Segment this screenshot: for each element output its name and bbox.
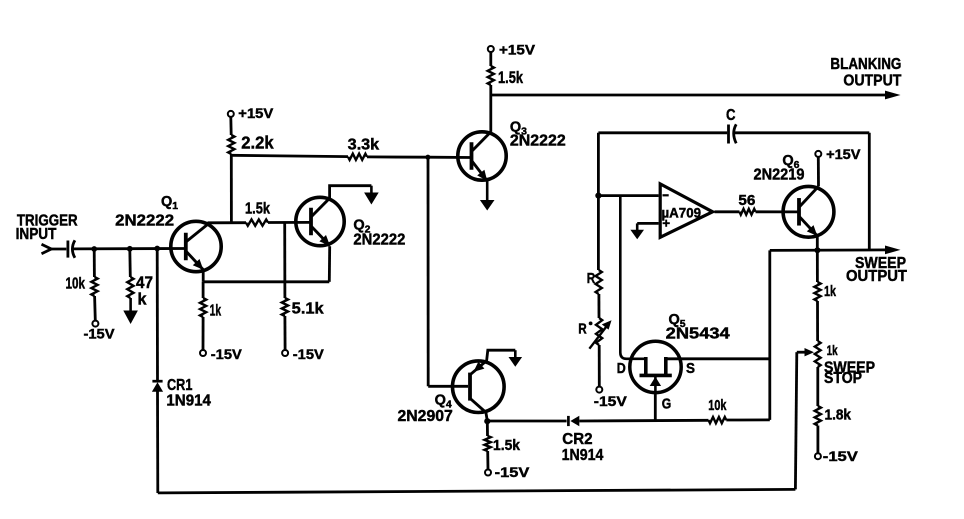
svg-text:D: D [617,360,626,377]
svg-text:2N2222: 2N2222 [353,231,405,248]
svg-text:1k: 1k [827,342,838,358]
svg-text:CR2: CR2 [562,431,592,448]
svg-text:+15V: +15V [826,146,861,162]
svg-text:OUTPUT: OUTPUT [843,72,901,89]
svg-text:-15V: -15V [211,346,243,362]
svg-text:µA709: µA709 [662,205,702,221]
svg-text:1N914: 1N914 [562,447,604,464]
svg-text:S: S [686,360,695,377]
svg-text:-15V: -15V [594,393,628,409]
svg-text:10k: 10k [66,276,86,293]
svg-text:2N2219: 2N2219 [754,166,805,183]
svg-text:2N2222: 2N2222 [510,132,566,149]
svg-text:-15V: -15V [495,464,530,480]
svg-text:STOP: STOP [824,370,862,387]
svg-text:1k: 1k [210,302,222,319]
svg-text:47: 47 [136,274,153,292]
svg-text:1.5k: 1.5k [493,437,521,454]
svg-text:R: R [578,320,587,337]
svg-text:-15V: -15V [823,448,859,464]
svg-text:1.5k: 1.5k [498,69,524,87]
svg-text:1.8k: 1.8k [825,407,852,424]
svg-text:1N914: 1N914 [166,392,211,409]
svg-text:R: R [587,270,596,287]
svg-text:5.1k: 5.1k [292,300,324,317]
svg-text:2N5434: 2N5434 [666,325,730,342]
svg-text:-15V: -15V [84,326,116,342]
svg-text:-15V: -15V [293,346,325,362]
svg-text:1.5k: 1.5k [245,201,270,218]
svg-text:OUTPUT: OUTPUT [846,268,908,285]
svg-text:2.2k: 2.2k [241,133,274,153]
svg-text:2N2222: 2N2222 [115,212,174,229]
svg-text:+15V: +15V [238,105,274,121]
svg-text:10k: 10k [708,398,727,414]
svg-text:1k: 1k [824,283,836,300]
svg-text:C: C [726,107,736,124]
svg-text:56: 56 [738,193,755,209]
svg-text:CR1: CR1 [167,377,193,394]
svg-text:3.3k: 3.3k [348,137,380,154]
svg-text:+15V: +15V [499,41,536,57]
svg-text:G: G [662,396,672,413]
svg-text:2N2907: 2N2907 [398,408,453,425]
svg-text:BLANKING: BLANKING [830,56,901,73]
svg-text:k: k [138,291,148,309]
svg-text:INPUT: INPUT [16,226,57,243]
